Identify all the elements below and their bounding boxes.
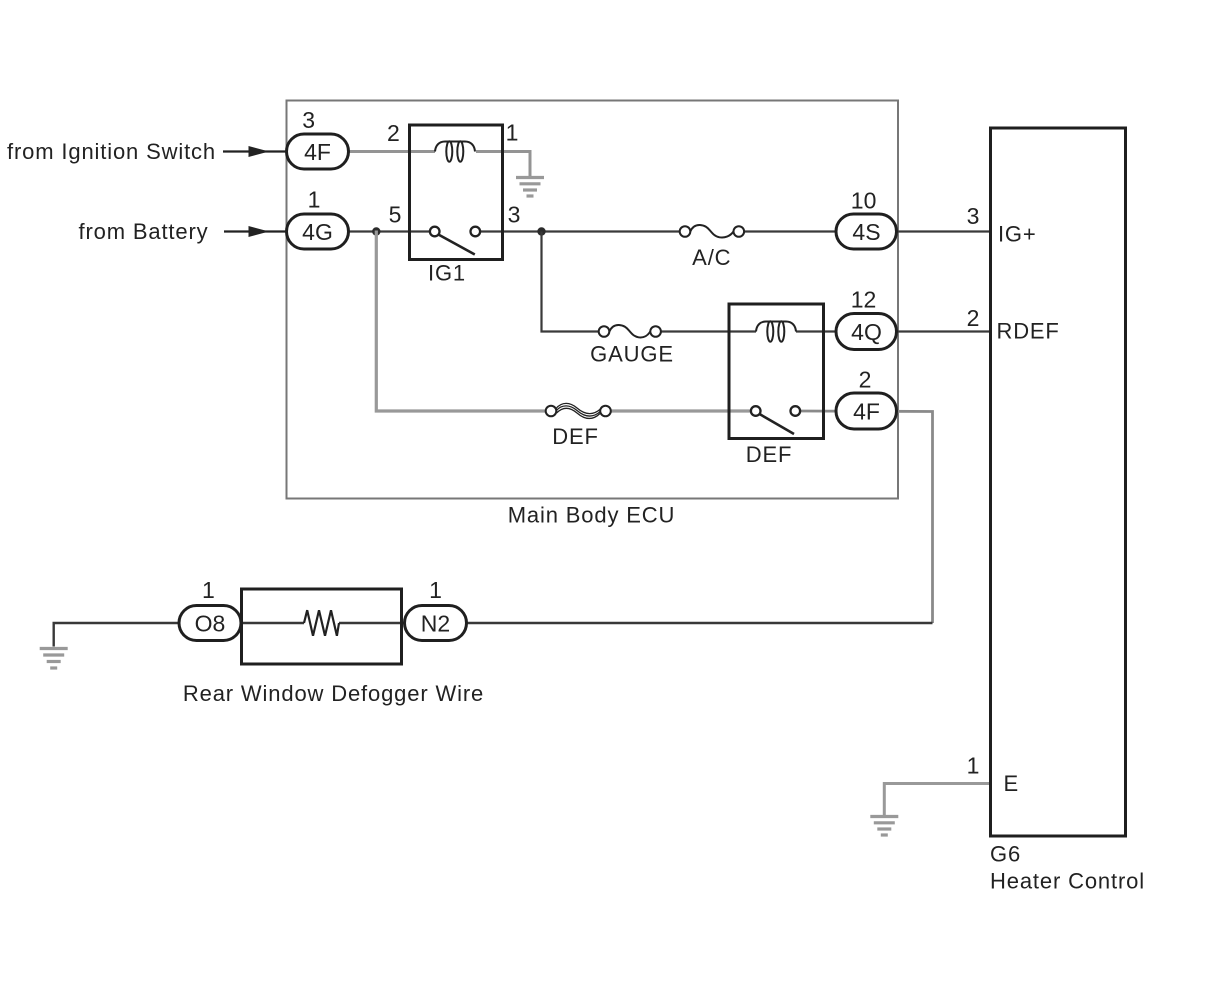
svg-text:12: 12 [851,287,877,313]
wire GAUGE fuse to DEF relay coil [661,330,756,332]
arrow from Ignition Switch [223,150,287,152]
relay DEF box [729,304,824,439]
resistor box Rear Window Defogger Wire [242,589,402,664]
svg-text:G6: G6 [990,841,1021,866]
svg-text:2: 2 [967,305,980,331]
svg-text:IG+: IG+ [998,222,1036,247]
fuse A/C [680,225,744,238]
wire row2 switch to A/C fuse [480,230,680,232]
svg-text:3: 3 [508,201,521,227]
wire DEF coil to 4Q and G6 RDEF [796,330,991,332]
svg-text:1: 1 [967,753,980,779]
svg-text:Rear Window Defogger Wire: Rear Window Defogger Wire [183,681,484,706]
connector N2 pin1 [405,606,467,641]
wire row1 from IG1 coil pin1 to ground [476,152,530,178]
wire row2 battery 4G to switch [348,230,430,232]
svg-text:4G: 4G [302,219,333,245]
connector 4F pin3 [287,134,349,169]
svg-text:IG1: IG1 [428,260,466,285]
junction node at IG1 output branch [537,227,545,235]
svg-text:5: 5 [389,201,402,227]
wire row2 A/C fuse to 4S and G6 IG+ [744,230,991,232]
connector 4F pin2 [836,393,897,429]
relay IG1 switch blade [439,235,475,255]
relay DEF coil [756,321,796,341]
circuit breaker DEF [546,403,611,418]
connector 4Q pin12 [836,314,897,350]
relay DEF switch blade [760,414,795,434]
svg-text:Main Body ECU: Main Body ECU [508,503,676,528]
wire E pin to ground [884,784,990,816]
relay DEF switch contacts [751,406,761,416]
arrow from Battery [224,230,287,232]
wire DEF relay switch to 4F then down to defogger [800,411,933,623]
svg-text:GAUGE: GAUGE [590,342,674,367]
svg-text:1: 1 [506,119,519,145]
relay IG1 switch contacts [430,227,440,237]
svg-text:1: 1 [429,577,442,603]
svg-text:O8: O8 [195,610,226,636]
wire vertical to GAUGE row [542,232,600,332]
svg-text:RDEF: RDEF [997,318,1060,343]
fuse GAUGE [599,325,661,338]
svg-text:4Q: 4Q [851,319,882,345]
resistor zigzag [304,610,339,636]
G6 Heater Control box [991,128,1126,836]
svg-text:Heater Control: Heater Control [990,869,1145,894]
svg-text:from Ignition Switch: from Ignition Switch [7,139,216,164]
svg-text:E: E [1004,771,1019,796]
ground G-defogger [40,649,68,669]
svg-text:from Battery: from Battery [78,219,208,244]
svg-text:3: 3 [967,203,980,229]
svg-text:2: 2 [859,367,872,393]
wire row1 from 4F to IG1 coil [348,150,435,153]
svg-text:3: 3 [302,107,315,133]
svg-text:1: 1 [202,577,215,603]
svg-text:N2: N2 [421,610,450,636]
ground G-IG1 [516,178,544,197]
svg-text:DEF: DEF [552,424,599,449]
Main Body ECU enclosure box [287,101,899,499]
connector 4G pin1 [287,214,349,249]
wire vertical from 4G junction down to DEF fuse row [376,231,546,412]
svg-text:DEF: DEF [746,442,793,467]
ground G-heater [870,817,898,836]
svg-text:4F: 4F [304,139,331,165]
wire defogger row from resistor to 4F drop [339,622,933,624]
relay IG1 box [410,125,503,260]
svg-text:4F: 4F [853,398,880,424]
relay IG1 coil [435,141,475,161]
wire defogger row from ground to resistor [54,623,304,647]
svg-text:10: 10 [851,188,877,214]
svg-text:2: 2 [387,120,400,146]
junction node at 4G branch [372,227,380,235]
svg-text:1: 1 [308,187,321,213]
svg-text:A/C: A/C [692,245,731,270]
svg-text:4S: 4S [852,219,880,245]
connector O8 pin1 [179,606,241,641]
wire DEF breaker to DEF relay switch [611,409,751,412]
connector 4S pin10 [836,214,897,249]
